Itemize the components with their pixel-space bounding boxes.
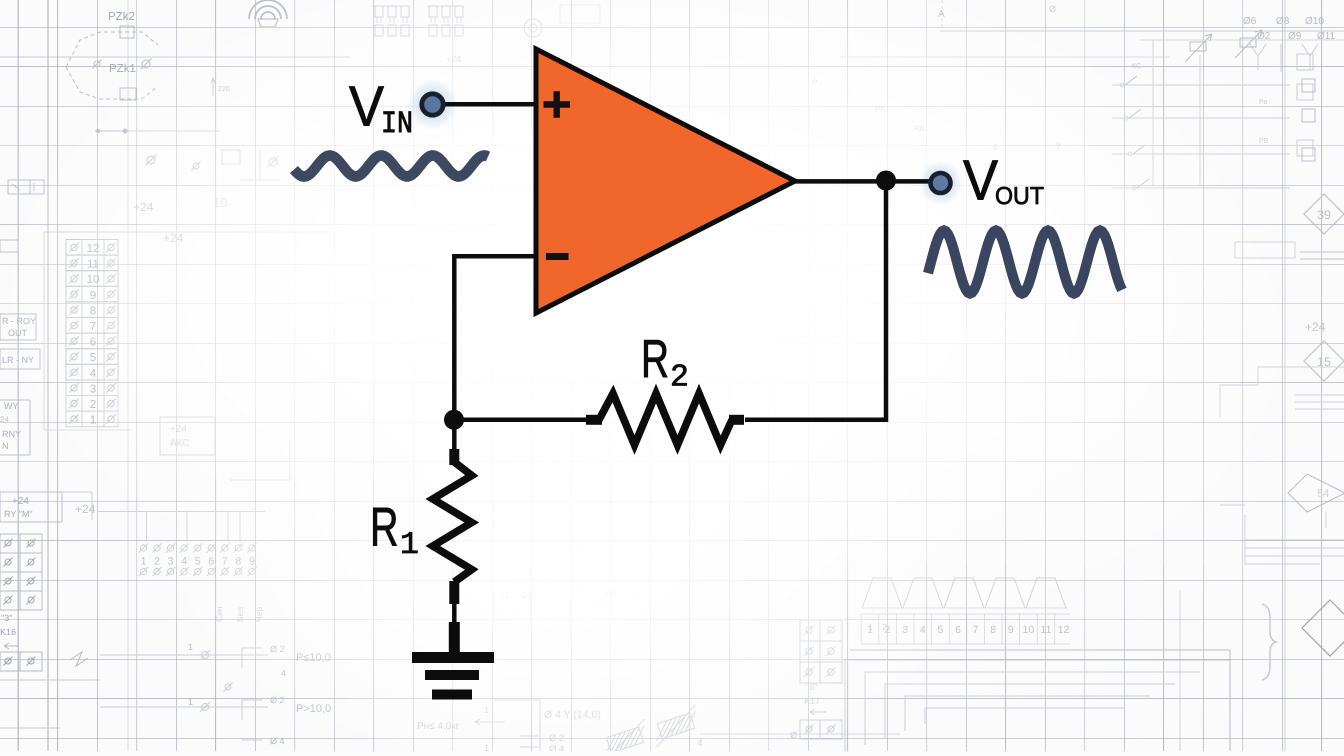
label V_IN <box>349 75 413 143</box>
svg-text:V: V <box>963 149 998 212</box>
wire: R1 to ground <box>452 602 457 630</box>
wire: V_IN terminal to + input <box>443 102 536 107</box>
op-amp - input marking <box>546 253 569 260</box>
wire: feedback from output node down and left to R2 <box>745 183 886 420</box>
svg-text:R: R <box>641 330 669 389</box>
node V_OUT output terminal <box>931 173 951 193</box>
svg-text:IN: IN <box>381 107 413 142</box>
label R_2 <box>641 330 689 396</box>
label V_OUT <box>963 149 1044 212</box>
wire: inverting input to feedback node <box>454 256 536 424</box>
glow behind V_OUT terminal <box>918 160 964 206</box>
resistor R2 <box>586 394 744 446</box>
op-amp + input marking <box>544 91 571 118</box>
wire: feedback node to R2 <box>454 418 588 423</box>
input sine waveform <box>294 156 488 177</box>
junction dot at feedback node <box>444 410 464 430</box>
svg-text:V: V <box>349 75 384 138</box>
label R_1 <box>370 497 419 564</box>
svg-text:2: 2 <box>670 361 689 396</box>
glow behind V_IN terminal <box>407 79 459 131</box>
resistor R1 <box>433 449 472 604</box>
wire: feedback node down to R1 <box>452 420 457 453</box>
svg-text:R: R <box>370 497 399 558</box>
output sine waveform <box>928 231 1122 294</box>
node V_IN input terminal <box>422 94 443 115</box>
svg-text:OUT: OUT <box>995 183 1044 210</box>
junction dot at output node <box>876 171 896 191</box>
wire: op-amp output to V_OUT terminal <box>793 179 932 184</box>
svg-text:1: 1 <box>400 528 419 563</box>
ground symbol <box>412 622 494 695</box>
op-amp U1 triangle <box>536 49 795 313</box>
